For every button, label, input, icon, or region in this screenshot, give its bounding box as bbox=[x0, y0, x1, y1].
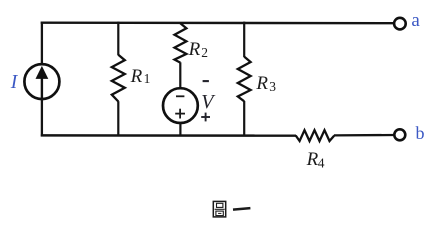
svg-text:2: 2 bbox=[201, 45, 208, 60]
wire R3 branch top bbox=[243, 22, 245, 57]
svg-text:V: V bbox=[201, 91, 216, 113]
svg-text:b: b bbox=[416, 123, 425, 143]
resistor R4 bbox=[296, 130, 335, 141]
svg-text:a: a bbox=[411, 10, 420, 31]
svg-text:I: I bbox=[10, 72, 19, 93]
wire top rail bbox=[41, 22, 395, 25]
wire left vertical upper bbox=[41, 22, 43, 65]
terminal b bbox=[394, 129, 405, 140]
resistor R1 bbox=[112, 55, 125, 102]
caption character yi (one) bbox=[233, 208, 250, 210]
voltage source V bbox=[163, 88, 198, 123]
wire V source bottom bbox=[179, 123, 181, 137]
label R1 bbox=[130, 66, 151, 87]
svg-text:R: R bbox=[255, 73, 268, 94]
svg-text:R: R bbox=[188, 39, 201, 60]
resistor R2 bbox=[175, 23, 187, 62]
wire bottom rail right bbox=[334, 134, 394, 137]
label R3 bbox=[255, 73, 276, 94]
svg-text:1: 1 bbox=[144, 71, 151, 86]
svg-text:4: 4 bbox=[318, 156, 325, 171]
wire R1 branch bottom bbox=[117, 101, 119, 136]
label R2 bbox=[188, 39, 208, 60]
current source I bbox=[24, 64, 59, 99]
wire R3 branch bottom bbox=[243, 101, 245, 136]
resistor R3 bbox=[238, 57, 251, 102]
svg-text:R: R bbox=[130, 66, 143, 87]
wire R1 branch top bbox=[117, 22, 119, 56]
svg-text:3: 3 bbox=[269, 79, 276, 94]
wire bottom rail left bbox=[41, 134, 296, 137]
wire R2 to V source bbox=[179, 62, 181, 88]
svg-text:R: R bbox=[306, 149, 319, 170]
caption character tu (figure) bbox=[213, 201, 225, 217]
label minus of V (outside) bbox=[203, 80, 209, 82]
terminal a bbox=[394, 18, 406, 30]
label plus of V (outside) bbox=[201, 113, 210, 122]
wire left vertical lower bbox=[41, 99, 43, 137]
label R4 bbox=[306, 149, 325, 170]
